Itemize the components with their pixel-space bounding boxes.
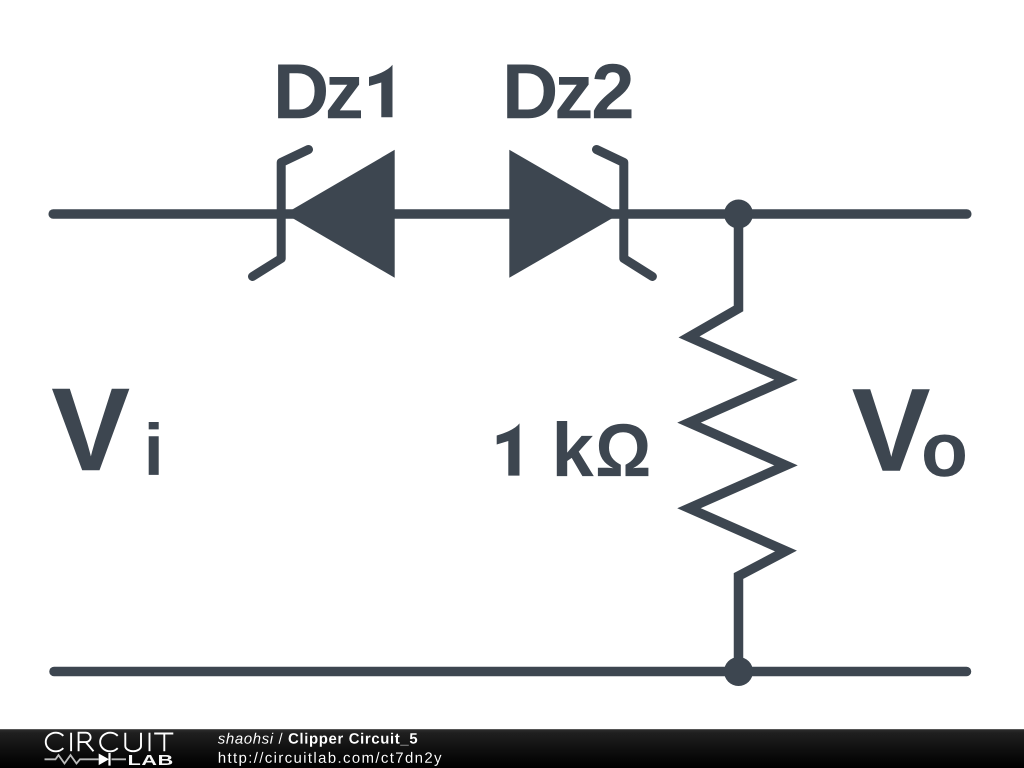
label Dz1 <box>278 65 392 119</box>
wire: top net from Vi through diodes to Vo <box>53 209 967 219</box>
node: junction of diode output, resistor top and Vo rail <box>724 200 753 229</box>
label Vi (input voltage, V with subscript i) <box>52 389 159 475</box>
attribution line 1: author shaohsi / title Clipper Circuit_5 <box>218 733 417 747</box>
label Vo (output voltage, V with subscript o) <box>852 389 965 477</box>
node: junction of resistor bottom and common rail <box>724 657 753 686</box>
CircuitLab logo: LAB wordmark <box>129 755 172 765</box>
attribution line 2: circuitlab share url text <box>219 752 442 766</box>
CircuitLab logo: CIRCUIT wordmark <box>46 733 174 752</box>
CircuitLab logo: resistor-diode icon <box>45 753 127 766</box>
label R1 value 1 kOhm <box>497 421 649 476</box>
zener diode Dz1 (cathode bar at left, triangle pointing left) <box>253 150 395 278</box>
wire: bottom common return net <box>54 667 967 677</box>
label Dz2 <box>507 64 631 118</box>
footer bar <box>0 729 1024 768</box>
resistor R1 1 kOhm vertical zigzag with lead stubs <box>689 214 786 672</box>
zener diode Dz2 (triangle pointing right, cathode bar at right) <box>509 150 652 278</box>
